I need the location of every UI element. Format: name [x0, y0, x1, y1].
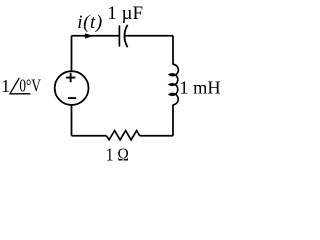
svg-text:1: 1 [1, 76, 10, 96]
svg-text:1 Ω: 1 Ω [106, 145, 129, 164]
svg-text:i(t): i(t) [77, 12, 102, 33]
svg-text:1 µF: 1 µF [107, 3, 143, 24]
svg-text:1 mH: 1 mH [179, 77, 220, 97]
svg-text:0°V: 0°V [19, 76, 41, 96]
